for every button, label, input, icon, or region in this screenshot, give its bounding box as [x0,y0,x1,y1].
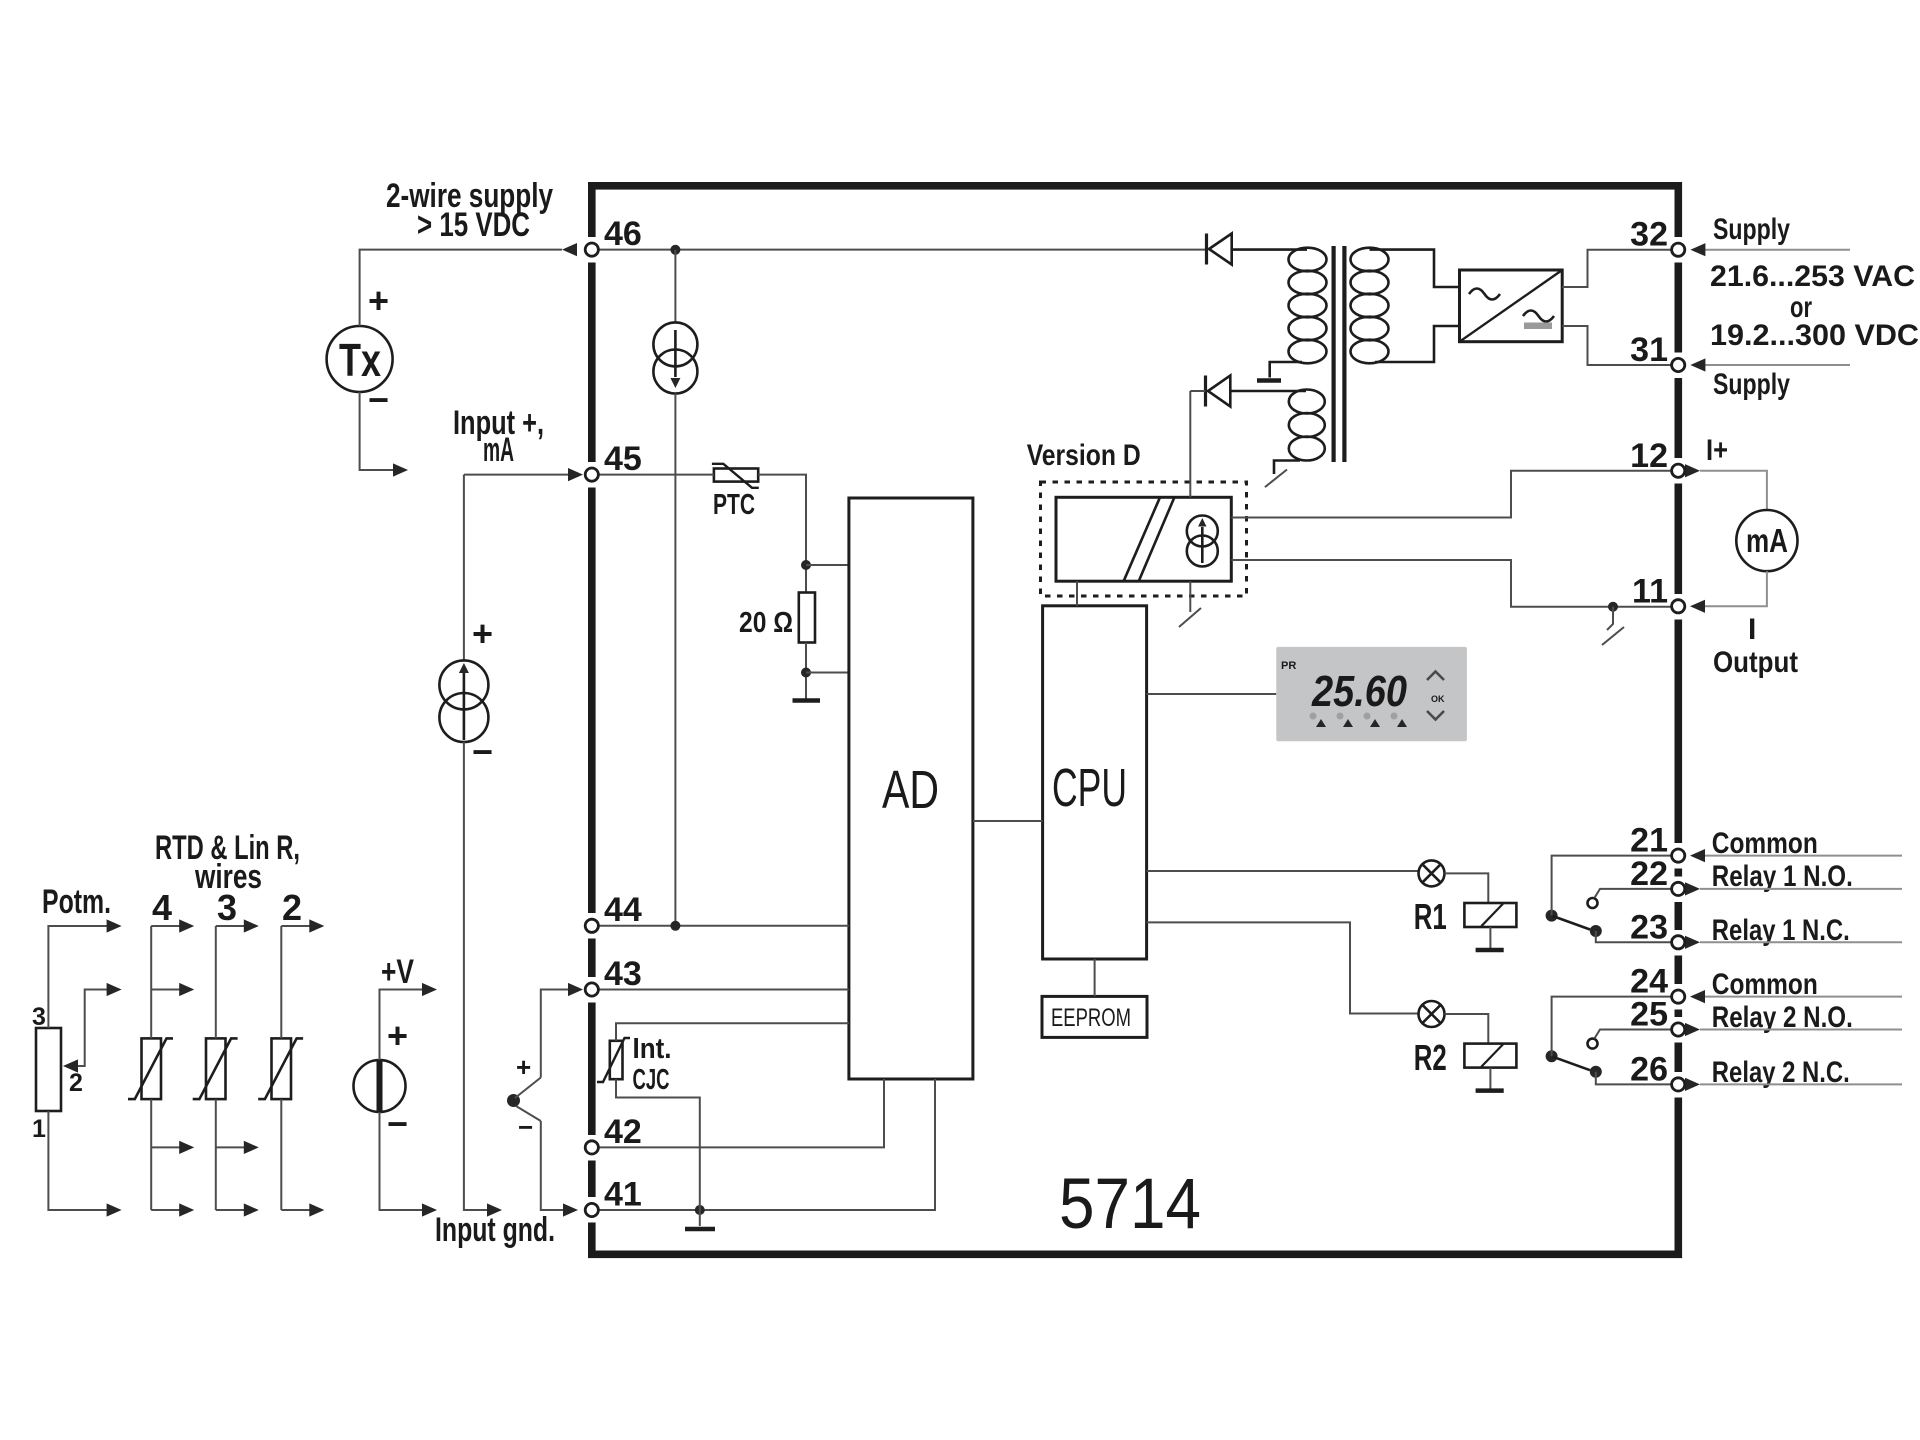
device enclosure border 5714 [586,186,1684,1255]
svg-text:OK: OK [1431,694,1445,704]
terminal 12 [1630,437,1685,478]
ground (20 ohm) [793,698,821,703]
terminal 41 [585,1176,642,1217]
wire relay2 NC to 26 [1596,1072,1672,1085]
wire relay1 NC to 23 [1596,931,1672,942]
wire 44 to AD [598,921,849,931]
svg-text:Int.: Int. [633,1033,672,1065]
wire CPU to EEPROM [1094,959,1096,996]
svg-text:+: + [387,1015,408,1056]
svg-text:Output: Output [1713,646,1798,679]
EEPROM block [1042,996,1147,1037]
common wire 24 [1704,996,1902,998]
arrow +V top [422,983,437,996]
mA meter [1736,510,1797,571]
wire AD to CPU [973,820,1043,822]
svg-text:I: I [1748,613,1756,646]
arrow into 43 [568,983,583,996]
svg-text:+: + [368,280,389,321]
terminal 11 [1632,572,1685,613]
svg-text:+: + [516,1052,531,1082]
terminal 46 [585,215,642,256]
terminal 43 [585,955,642,996]
svg-text:31: 31 [1630,331,1668,369]
arrow out of 12 [1685,464,1700,477]
display 5714 front [1276,647,1467,741]
svg-text:−: − [518,1112,533,1142]
terminal 22 [1630,855,1685,896]
lamp R1 [1419,860,1445,886]
wire mA source to input gnd row [464,742,492,1210]
CJC top wire [616,1023,849,1041]
svg-text:+V: +V [381,953,414,991]
svg-text:CJC: CJC [633,1064,670,1096]
TC plus wire to 43 [541,990,570,1078]
svg-text:25.60: 25.60 [1311,667,1407,716]
lamp R2 [1419,1001,1445,1027]
junction 46 rail [670,245,680,255]
terminal 32 [1630,216,1685,257]
wire 45 to PTC to AD [598,475,849,593]
CJC bottom wire [616,1079,700,1210]
transformer secondary winding [1351,248,1460,364]
wire 22 out [1700,888,1902,890]
internal current source (46 rail) [653,250,697,926]
wire mA meter to 11 [1704,571,1767,606]
svg-text:AD: AD [882,760,939,820]
svg-text:R2: R2 [1414,1037,1447,1078]
svg-text:mA: mA [483,431,514,469]
svg-text:12: 12 [1630,437,1668,475]
wire input mA to terminal 45 [464,474,570,476]
relay coil R2 [1464,1044,1516,1068]
wire CPU to relay1 lamp [1147,870,1419,872]
wire D2 to Version D [1189,391,1191,497]
svg-text:3: 3 [217,887,237,928]
TC minus wire to 41 [541,1121,568,1210]
terminal 42 [585,1113,642,1154]
isolation secondary slash [1179,581,1201,627]
svg-text:3: 3 [32,1003,46,1031]
arrow into 11 [1690,600,1705,613]
potm wiper wire [75,990,112,1067]
svg-text:21: 21 [1630,822,1668,860]
arrow out of 25 [1685,1023,1700,1036]
arrow Tx loop end [393,463,408,476]
arrow into 24 [1690,990,1705,1003]
RTD 4-wire sensor [128,1038,173,1099]
svg-text:2: 2 [69,1069,83,1097]
wire Tx bottom loop [360,392,398,470]
transformer core [1334,246,1345,462]
svg-text:23: 23 [1630,908,1668,946]
wire Tx to terminal 46 [360,250,562,326]
svg-text:21.6...253 VAC: 21.6...253 VAC [1710,260,1915,293]
relay 1 contact [1546,898,1602,937]
RTD4 wires [151,919,194,1216]
wire 42 to AD [598,1079,884,1147]
wire 46 rail to diode [598,249,1205,251]
arrow into 41 [563,1203,578,1216]
slash (lower winding) [1265,470,1287,488]
terminal 21 [1630,822,1685,863]
arrow +V bottom [422,1203,437,1216]
transformer lower winding [1230,390,1325,475]
svg-text:Supply: Supply [1713,213,1790,246]
svg-text:Input gnd.: Input gnd. [435,1211,555,1249]
common wire 21 [1704,855,1902,857]
PTC thermistor [712,464,759,488]
svg-text:43: 43 [604,955,642,993]
svg-text:−: − [368,379,389,420]
wire lamp R2 to coil [1445,1014,1489,1044]
terminal 24 [1630,963,1685,1004]
svg-text:Version D: Version D [1027,439,1141,472]
svg-text:> 15 VDC: > 15 VDC [417,206,530,244]
wire converter to 32 [1562,250,1672,287]
RTD3 wires [216,919,259,1216]
wire relay2 common to 24 [1552,997,1672,1057]
ground (R2 coil) [1476,1068,1504,1091]
arrow out of 26 [1685,1078,1700,1091]
terminal 23 [1630,908,1685,949]
terminal 25 [1630,996,1685,1037]
arrow potm top [107,919,122,932]
voltage source +V [354,1060,406,1112]
arrow out of 23 [1685,936,1700,949]
svg-text:mA: mA [1746,522,1788,559]
RTD 3-wire sensor [193,1038,238,1099]
transmitter Tx [327,326,393,392]
svg-text:CPU: CPU [1052,758,1127,818]
arrow into 45 [568,468,583,481]
wire CPU to display [1147,693,1277,695]
Version D dashed box [1041,482,1247,596]
terminal 44 [585,891,642,932]
svg-text:−: − [472,731,493,772]
+V bottom wire [380,1112,429,1210]
RTD 2-wire sensor [258,1038,303,1099]
wire relay2 NO to 25 [1595,1030,1673,1039]
svg-text:19.2...300 VDC: 19.2...300 VDC [1710,319,1919,352]
svg-text:26: 26 [1630,1050,1668,1088]
terminal 26 [1630,1050,1685,1091]
CPU block [1043,606,1147,959]
wire relay1 NO to 22 [1595,889,1673,898]
wire lamp R1 to coil [1445,873,1489,903]
wire 26 out [1700,1083,1902,1085]
relay coil R1 [1464,903,1516,927]
diode D1 [1207,234,1232,265]
wire converter to 31 [1562,326,1672,365]
wire isolation to CPU [1076,581,1078,606]
svg-text:44: 44 [604,891,642,929]
slash below 11 junction [1602,607,1624,645]
arrow into 32 [1690,243,1705,256]
label Input +, mA [453,404,544,469]
wire CPU to relay2 lamp [1147,922,1419,1013]
arrow potm wiper [63,1059,78,1072]
arrow out of 46 [562,243,577,256]
terminal 31 [1630,331,1685,372]
transformer primary-left winding [1232,248,1327,378]
svg-text:32: 32 [1630,216,1668,254]
potm top wire [48,926,112,1028]
terminal 45 [585,440,642,481]
AD converter block [849,498,973,1079]
wire isolation to terminal 11 [1231,560,1672,612]
wire 45 feed down to current source [463,475,465,661]
svg-text:42: 42 [604,1113,642,1151]
arrow potm bottom [107,1203,122,1216]
wire 23 out [1700,941,1902,943]
arrow out of 22 [1685,882,1700,895]
svg-text:20 Ω: 20 Ω [739,607,793,639]
ground (winding) [1257,378,1281,383]
wire isolation to terminal 12 [1231,471,1672,518]
svg-text:46: 46 [604,215,642,253]
diode D2 [1206,376,1231,407]
svg-text:5714: 5714 [1059,1165,1201,1244]
current source mA input [439,660,488,742]
potm bottom wire [48,1111,112,1210]
wire 12 to mA meter [1700,471,1767,510]
resistor 20 ohm [799,593,815,643]
svg-text:EEPROM: EEPROM [1051,1004,1131,1032]
svg-text:25: 25 [1630,996,1668,1034]
svg-text:45: 45 [604,440,642,478]
ground (R1 coil) [1476,927,1504,950]
arrow into 21 [1690,849,1705,862]
svg-text:PR: PR [1281,660,1296,672]
arrow into 31 [1690,358,1705,371]
isolation output module [1056,497,1231,581]
svg-text:11: 11 [1632,572,1668,610]
svg-text:41: 41 [604,1176,642,1214]
wire 20ohm bottom [801,643,849,700]
svg-text:I+: I+ [1706,434,1728,467]
arrow mA source gnd [487,1203,502,1216]
supply wire 31 [1705,364,1850,366]
svg-text:4: 4 [152,887,172,928]
relay 2 contact [1546,1039,1602,1078]
wire 25 out [1700,1029,1902,1031]
thermocouple junction [507,1078,541,1122]
svg-text:Supply: Supply [1713,368,1790,401]
svg-text:2: 2 [282,887,302,928]
wire relay1 common to 21 [1552,856,1672,916]
potentiometer [36,1028,61,1111]
ground (41) [685,1210,715,1229]
arrow potm wiper out [107,983,122,996]
wire 41 rail [598,1079,935,1215]
svg-text:22: 22 [1630,855,1668,893]
supply wire 32 [1705,249,1850,251]
svg-text:−: − [387,1103,408,1144]
AC/DC converter [1460,270,1563,342]
svg-text:PTC: PTC [713,489,755,521]
svg-text:R1: R1 [1414,896,1447,937]
+V top wire [380,990,429,1061]
RTD2 wires [281,919,324,1216]
svg-text:1: 1 [32,1115,46,1143]
internal CJC sensor [597,1038,630,1082]
svg-text:+: + [472,613,493,654]
svg-text:Potm.: Potm. [42,883,111,921]
wire 43 to AD [598,989,849,991]
